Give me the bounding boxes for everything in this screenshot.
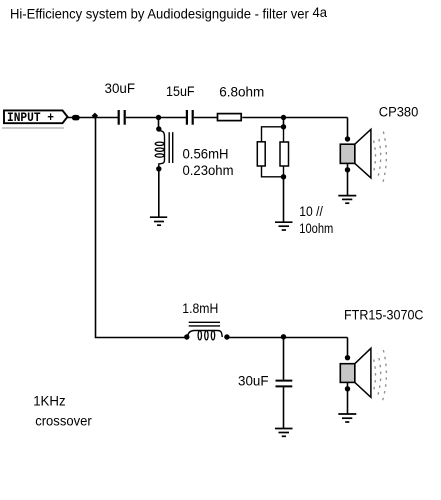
wire node A down to bottom branch bbox=[96, 118, 187, 338]
wire SP2 to ground bbox=[347, 382, 349, 413]
node B junction dot bbox=[156, 115, 161, 120]
svg-text:10ohm: 10ohm bbox=[299, 221, 333, 236]
L2 right pin dot bbox=[224, 334, 229, 339]
L1 top pin dot bbox=[156, 126, 161, 131]
svg-text:INPUT +: INPUT + bbox=[7, 110, 54, 125]
node A junction diamond bbox=[92, 113, 98, 119]
svg-text:CP380: CP380 bbox=[379, 105, 419, 120]
caption 1KHz crossover bbox=[33, 394, 92, 429]
svg-text:1.8mH: 1.8mH bbox=[182, 301, 218, 316]
svg-text:30uF: 30uF bbox=[238, 374, 269, 389]
inductor L1 0.56mH vertical bbox=[155, 131, 164, 169]
wire down to SP2 bbox=[347, 338, 349, 359]
capacitor C3 30uF bbox=[276, 381, 293, 387]
wire input to node A bbox=[67, 117, 118, 119]
connector pin dash bbox=[72, 115, 80, 121]
wire C3 to ground bbox=[283, 387, 285, 428]
wire C1 to node B bbox=[126, 117, 187, 119]
input connector flag INPUT + bbox=[2, 110, 68, 128]
speaker SP1 body bbox=[340, 129, 371, 178]
SP2 bottom pin dot bbox=[345, 386, 350, 391]
L1 value label bbox=[183, 147, 234, 178]
wire L2 to speaker SP2 bbox=[227, 337, 348, 339]
resistor R3 10ohm right bbox=[280, 142, 289, 166]
svg-text:0.23ohm: 0.23ohm bbox=[183, 163, 234, 178]
svg-text:10 //: 10 // bbox=[299, 204, 323, 219]
wire node D to C3 bbox=[283, 337, 285, 380]
L2 core lines bbox=[189, 322, 220, 326]
SP1 top pin dot bbox=[345, 136, 350, 141]
wire SP1 to ground bbox=[347, 163, 349, 195]
svg-text:Hi-Efficiency system by Audiod: Hi-Efficiency system by Audiodesignguide… bbox=[10, 4, 327, 22]
SP2 sound waves bbox=[374, 347, 387, 400]
wire R3 to bottom node bbox=[283, 166, 285, 177]
svg-text:FTR15-3070C: FTR15-3070C bbox=[344, 308, 424, 323]
svg-text:15uF: 15uF bbox=[166, 84, 195, 99]
svg-text:crossover: crossover bbox=[35, 414, 92, 429]
wire node C down to parallel pair bbox=[283, 118, 285, 128]
SP1 bottom pin dot bbox=[345, 167, 350, 172]
ground G5 bbox=[338, 414, 356, 422]
wire node C branch down to R3 bbox=[283, 127, 285, 142]
L1 core lines bbox=[169, 132, 173, 163]
ground G2 bbox=[275, 222, 293, 230]
inductor L2 1.8mH horizontal bbox=[188, 331, 223, 340]
wire node B to L1 bbox=[158, 118, 160, 131]
SP1 sound waves bbox=[374, 129, 387, 184]
wire node C to speaker SP1 bbox=[347, 118, 349, 140]
ground G1 bbox=[150, 217, 167, 225]
parallel pair value label bbox=[299, 204, 333, 236]
svg-text:30uF: 30uF bbox=[105, 81, 136, 96]
wire C2 to R1 bbox=[194, 117, 217, 119]
wire parallel pair to ground bbox=[283, 177, 285, 222]
speaker SP2 body bbox=[340, 348, 371, 397]
parallel pair top pin dot bbox=[281, 124, 286, 129]
resistor R1 6.8ohm bbox=[218, 114, 242, 121]
capacitor C1 30uF bbox=[119, 110, 125, 125]
SP2 top pin dot bbox=[345, 355, 350, 360]
capacitor C2 15uF bbox=[187, 110, 193, 125]
node C junction dot bbox=[281, 115, 286, 120]
wire top of parallel resistors bbox=[262, 127, 284, 142]
wire L1 to ground bbox=[158, 169, 160, 217]
ground G3 bbox=[338, 196, 356, 204]
svg-text:6.8ohm: 6.8ohm bbox=[219, 84, 264, 99]
resistor R2 10ohm left bbox=[257, 142, 265, 166]
svg-text:1KHz: 1KHz bbox=[33, 394, 66, 409]
parallel pair bottom pin dot bbox=[281, 174, 286, 179]
wire R1 to node C bbox=[242, 117, 347, 119]
L2 left pin dot bbox=[184, 334, 189, 339]
ground G4 bbox=[275, 429, 293, 437]
svg-text:0.56mH: 0.56mH bbox=[183, 147, 229, 162]
wire bottom of parallel resistors bbox=[262, 166, 284, 177]
node D junction dot bbox=[281, 334, 286, 339]
L1 bottom pin dot bbox=[156, 166, 161, 171]
